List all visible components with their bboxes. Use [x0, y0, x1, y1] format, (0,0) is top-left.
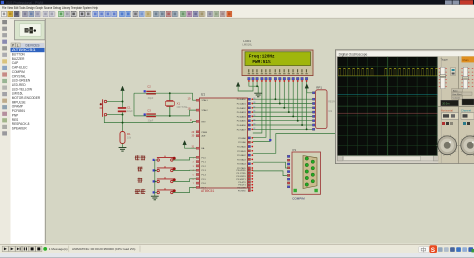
junction button top: [122, 101, 124, 103]
svg-text:LCD1: LCD1: [243, 39, 251, 43]
svg-text:COMPIM: COMPIM: [292, 196, 305, 200]
oscilloscope window frame: [335, 50, 474, 164]
junction X1 bottom: [169, 115, 171, 117]
svg-text:1 Message(s): 1 Message(s): [49, 247, 68, 251]
power VCC (reset circuit): [121, 86, 125, 90]
svg-text:P3.1/TXD: P3.1/TXD: [237, 173, 247, 175]
svg-text:File View Edit Tools Design Gr: File View Edit Tools Design Graph Source…: [2, 5, 98, 10]
device list: [11, 48, 45, 244]
label OK (Chinese): [135, 189, 140, 194]
power VCC (RP1): [305, 84, 309, 88]
svg-text:SPEAKER: SPEAKER: [12, 127, 28, 131]
oscilloscope screen: [337, 57, 437, 156]
wire keypad ground rail: [154, 160, 156, 196]
svg-text:Chan: Chan: [462, 58, 469, 62]
wire LCD E: [253, 81, 270, 141]
wire PWM to oscilloscope: [253, 134, 337, 154]
svg-text:P2.4/A12: P2.4/A12: [237, 154, 246, 157]
ground (LCD): [254, 93, 262, 97]
title bar: [0, 0, 474, 5]
svg-text:P0.2/AD2: P0.2/AD2: [237, 107, 247, 110]
svg-text:LED-GREEN: LED-GREEN: [12, 79, 31, 83]
svg-text:Channel: Channel: [461, 108, 471, 112]
svg-text:OPAMP: OPAMP: [12, 105, 23, 109]
LCD LCD1 module: [242, 50, 313, 76]
svg-text:P0.5/AD5: P0.5/AD5: [237, 120, 247, 123]
svg-text:P2.1/A9: P2.1/A9: [238, 141, 246, 144]
svg-text:P3.2/INT0: P3.2/INT0: [236, 176, 246, 178]
input method toolbar: [419, 245, 474, 254]
svg-text:PWM:51%: PWM:51%: [252, 59, 270, 65]
main toolbar: [0, 10, 474, 19]
svg-text:30pF: 30pF: [148, 97, 154, 100]
svg-text:PSEN: PSEN: [202, 132, 208, 134]
svg-text:R1: R1: [127, 132, 131, 136]
wire K2 left: [155, 170, 157, 172]
wire P3.0 RXD to P1: [253, 162, 287, 168]
svg-text:MOTOR-ENCODER: MOTOR-ENCODER: [12, 96, 41, 100]
node marker C3: [144, 113, 146, 115]
COMPIM pin squares: [287, 155, 290, 188]
svg-text:U1: U1: [201, 93, 205, 97]
MCU right pin squares P2: [248, 137, 253, 169]
wire XTAL2 net: [134, 110, 200, 116]
wire K1 to P1.0: [173, 157, 197, 160]
button K1: [157, 156, 176, 162]
scope channel knob section: [459, 108, 474, 155]
menu bar: [0, 5, 474, 10]
svg-text:Cursors: Cursors: [453, 97, 462, 100]
wire bus P0 to RP1: [253, 99, 313, 129]
svg-text:P3.7/RD: P3.7/RD: [238, 191, 246, 193]
node marker K2: [153, 169, 155, 171]
button RESET: [100, 99, 107, 117]
wire K2 to P1.1: [173, 169, 197, 171]
connector P1 COMPIM: [292, 148, 321, 201]
junction X1 top: [169, 92, 171, 94]
scope horizontal section: [436, 108, 458, 155]
wire XTAL1 net: [134, 93, 200, 100]
svg-text:ALE: ALE: [202, 135, 207, 138]
svg-text:P3.4/T0: P3.4/T0: [238, 182, 246, 184]
crystal X1: [165, 93, 188, 116]
component preview window: [15, 20, 46, 40]
wire LCD RW: [253, 81, 266, 137]
wire button top: [107, 101, 123, 103]
svg-text:P1: P1: [293, 148, 297, 152]
svg-text:Auto: Auto: [453, 89, 458, 92]
status bar: [0, 244, 474, 258]
capacitor C2: [146, 85, 156, 100]
svg-text:20.0m: 20.0m: [442, 102, 449, 106]
svg-text:C3: C3: [147, 108, 151, 112]
object selector header: [11, 43, 45, 48]
svg-text:XTAL1: XTAL1: [202, 99, 209, 102]
svg-text:C2: C2: [147, 85, 151, 89]
LCD pin squares: [248, 77, 308, 81]
wire EA: [185, 145, 200, 148]
svg-text:P3.5/T1: P3.5/T1: [238, 185, 246, 187]
RP1 pin squares: [312, 92, 315, 131]
label ADD (Chinese): [137, 167, 142, 172]
svg-text:LED-YELLOW: LED-YELLOW: [12, 87, 32, 91]
junction rail K3: [154, 181, 156, 183]
svg-text:P3.6/WR: P3.6/WR: [237, 188, 246, 190]
svg-text:P0.7/AD7: P0.7/AD7: [237, 128, 247, 131]
svg-text:P3.3/INT1: P3.3/INT1: [236, 179, 246, 181]
power VCC (EA pin): [183, 141, 187, 145]
junction VEE: [256, 85, 258, 87]
wire bus LCD D0-D7 verticals: [275, 81, 306, 129]
oscilloscope title bar: [337, 51, 474, 56]
wire R1 to ground: [122, 144, 124, 148]
svg-text:P2.0/A8: P2.0/A8: [238, 137, 246, 140]
wire VDD: [238, 82, 253, 91]
node marker K1: [153, 159, 155, 161]
wire K1 left: [155, 159, 157, 161]
resistor R1: [120, 132, 132, 144]
svg-text:P0.4/AD4: P0.4/AD4: [237, 115, 247, 118]
button K2: [157, 166, 176, 172]
svg-text:C1: C1: [127, 106, 131, 110]
svg-text:P2.6/A14: P2.6/A14: [237, 163, 246, 166]
svg-text:RESPACK-8: RESPACK-8: [12, 122, 30, 126]
wire VEE: [256, 82, 258, 87]
trace channel B (cyan): [338, 93, 438, 95]
junction rail K2: [154, 170, 156, 172]
wire VSS to ground: [249, 82, 258, 94]
svg-text:DEVICES: DEVICES: [26, 43, 40, 47]
wire LCD RS: [253, 81, 262, 133]
wire K3 to P1.2: [173, 179, 197, 182]
label SUB (Chinese): [137, 178, 142, 183]
node marker P2: [269, 139, 271, 141]
MCU U1 AT89C51: [200, 93, 248, 194]
svg-text:P0.6/AD6: P0.6/AD6: [237, 124, 247, 127]
svg-text:ANIMATING: 00:00:20.950000 (CP: ANIMATING: 00:00:20.950000 (CPU load 2%): [72, 247, 135, 251]
svg-text:P0.0/AD0: P0.0/AD0: [237, 98, 247, 101]
node marker C2: [144, 90, 146, 92]
svg-text:X1: X1: [177, 102, 181, 106]
node marker K4: [153, 191, 155, 193]
left mode toolbar: [0, 18, 10, 244]
resistor pack RP1 RESPACK-8: [316, 86, 343, 129]
svg-text:P2.3/A11: P2.3/A11: [237, 150, 246, 153]
junction button bottom: [122, 114, 124, 116]
svg-text:PNP: PNP: [12, 113, 18, 117]
wire K4 to P1.3: [173, 187, 197, 192]
button K4: [157, 188, 176, 194]
svg-text:10uF: 10uF: [127, 110, 133, 113]
svg-text:COMPIM: COMPIM: [12, 70, 25, 74]
MCU right pin squares P3: [248, 169, 253, 191]
svg-text:AT89C51: AT89C51: [12, 48, 36, 52]
wire VCC to C1: [122, 91, 124, 108]
svg-text:P0.3/AD3: P0.3/AD3: [237, 111, 247, 114]
ground (reset): [119, 148, 127, 152]
svg-text:XTAL2: XTAL2: [202, 109, 209, 112]
wire button bottom: [107, 114, 123, 116]
svg-text:S: S: [431, 247, 436, 254]
junction dots data bus: [274, 98, 307, 130]
scope channel A section: [461, 56, 474, 105]
svg-text:Trigger: Trigger: [441, 58, 449, 61]
svg-text:Horizontal: Horizontal: [441, 108, 454, 112]
trace channel A (yellow PWM): [338, 75, 437, 77]
wire VCC to RP1 pin1: [307, 88, 313, 93]
power VCC (LCD VDD): [236, 82, 240, 86]
wire crystal ground rail: [133, 93, 135, 116]
wire K3 left: [155, 181, 157, 183]
LCD pin label marks: [248, 69, 308, 74]
canvas: [45, 19, 474, 244]
svg-text:Freq:120Hz: Freq:120Hz: [249, 54, 275, 60]
oscilloscope grid: [337, 57, 437, 156]
junction RST/R1: [122, 122, 124, 124]
svg-text:P0.1/AD1: P0.1/AD1: [237, 103, 247, 106]
svg-text:RST: RST: [202, 121, 207, 123]
oscilloscope control panel: [438, 56, 474, 163]
MCU left pin squares: [196, 99, 199, 188]
svg-text:30pF: 30pF: [148, 119, 154, 122]
svg-text:P2.2/A10: P2.2/A10: [237, 146, 246, 149]
svg-text:AT89C51: AT89C51: [201, 189, 214, 193]
wire K4 left: [155, 192, 157, 194]
wire P3.1 TXD to P1: [253, 171, 287, 176]
label SET (Chinese): [135, 155, 140, 160]
svg-text:RP1: RP1: [316, 86, 322, 90]
wire RST net: [104, 116, 196, 123]
node marker K3: [153, 180, 155, 182]
svg-text:P3.0/RXD: P3.0/RXD: [236, 170, 246, 172]
wire C1 to R1: [122, 112, 124, 131]
svg-text:L: L: [17, 43, 19, 47]
svg-text:LM016L: LM016L: [242, 43, 252, 47]
svg-text:Digital Oscilloscope: Digital Oscilloscope: [339, 52, 368, 56]
svg-text:P2.5/A13: P2.5/A13: [237, 158, 246, 161]
oscilloscope scrollbar: [337, 156, 438, 161]
button K3: [157, 177, 176, 183]
MCU right pin squares P0: [248, 98, 253, 130]
scope trigger section: [439, 58, 463, 106]
capacitor C1: [118, 106, 133, 114]
svg-text:One-Shot: One-Shot: [452, 93, 462, 96]
capacitor C3: [146, 108, 156, 122]
ground (keypad): [151, 196, 159, 200]
svg-text:CAP: CAP: [12, 61, 18, 65]
trace channel C (red): [338, 112, 438, 114]
